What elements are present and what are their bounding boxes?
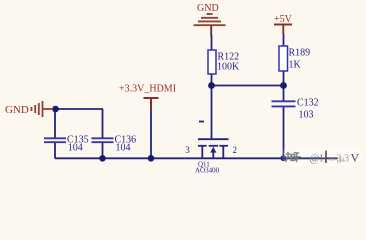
svg-text:V: V	[351, 151, 360, 165]
svg-text:+5V: +5V	[274, 14, 293, 25]
svg-text:2: 2	[233, 145, 238, 155]
svg-text:1K: 1K	[289, 60, 302, 71]
svg-text:en: en	[329, 155, 336, 163]
svg-text:GND: GND	[197, 3, 219, 14]
svg-text:C132: C132	[297, 98, 319, 109]
svg-text:3: 3	[185, 145, 190, 155]
svg-text:3.3: 3.3	[337, 154, 350, 165]
svg-text:104: 104	[116, 143, 131, 154]
svg-text:GND: GND	[5, 104, 29, 116]
svg-text:R189: R189	[289, 48, 311, 59]
svg-text:@H: @H	[310, 153, 328, 165]
svg-text:103: 103	[299, 110, 314, 121]
svg-text:104: 104	[68, 143, 83, 154]
svg-text:AO3400: AO3400	[195, 167, 220, 175]
svg-text:100K: 100K	[217, 62, 240, 73]
svg-text:+3.3V_HDMI: +3.3V_HDMI	[119, 84, 176, 95]
